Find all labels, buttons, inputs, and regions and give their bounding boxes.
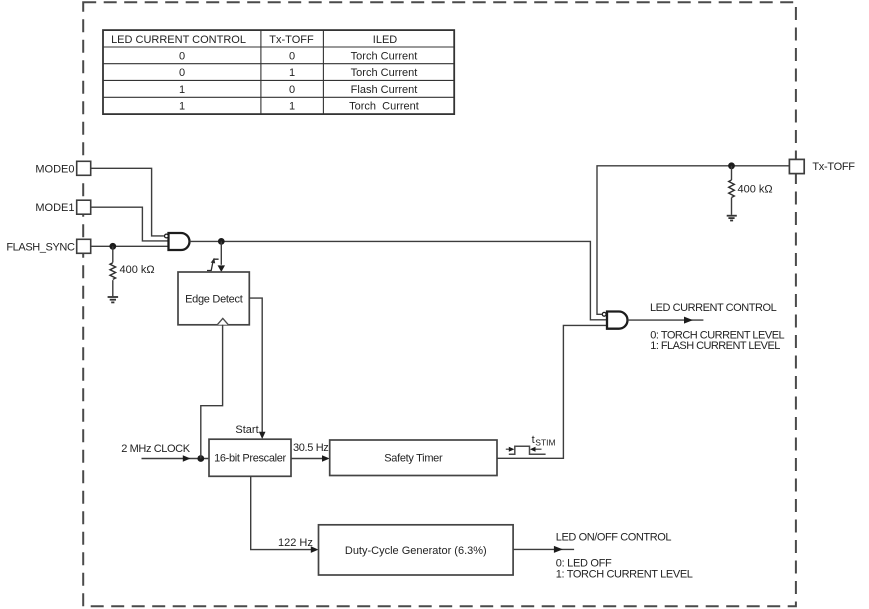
wire Edge Detect output to prescaler Start: [249, 298, 262, 433]
wire U1 output to right gate branch: [190, 241, 607, 319]
pin MODE1: [77, 200, 91, 214]
tSTIM pulse annotation: [509, 446, 546, 454]
rising edge symbol: [207, 259, 219, 270]
wire Tx-TOFF to U2 top input: [597, 166, 789, 314]
node Tx-TOFF junction: [728, 162, 735, 169]
svg-text:ILED: ILED: [373, 34, 398, 46]
svg-text:t: t: [532, 434, 535, 446]
svg-text:0: 0: [179, 67, 185, 79]
wire MODE0 to gate U1 top input: [91, 168, 164, 236]
resistor 400k right: [729, 180, 735, 197]
clock wedge on Edge Detect: [217, 318, 228, 324]
wire pulldown to resistor: [112, 246, 114, 296]
svg-text:Torch Current: Torch Current: [351, 67, 418, 79]
wire 2 MHz clock input: [142, 458, 210, 460]
resistor 400k left: [110, 263, 116, 280]
svg-text:Torch Current: Torch Current: [351, 50, 418, 62]
svg-text:2 MHz CLOCK: 2 MHz CLOCK: [121, 443, 190, 455]
wire prescaler to safety timer: [291, 458, 322, 460]
and-gate U2: [607, 312, 628, 329]
bubble on U1 MODE0 input: [165, 234, 169, 238]
svg-text:1: TORCH CURRENT LEVEL: 1: TORCH CURRENT LEVEL: [556, 569, 693, 581]
svg-text:Safety Timer: Safety Timer: [384, 453, 443, 465]
and-gate U1: [169, 233, 190, 250]
pin MODE0: [77, 161, 91, 175]
svg-text:122 Hz: 122 Hz: [278, 537, 313, 549]
wire pulldown to resistor right: [731, 166, 733, 215]
svg-text:0: 0: [289, 50, 295, 62]
wire duty-cycle output: [513, 548, 574, 550]
svg-text:Start: Start: [235, 424, 258, 436]
Duty-Cycle Generator block: [319, 525, 514, 575]
pin Tx-TOFF: [789, 159, 804, 173]
svg-text:FLASH_SYNC: FLASH_SYNC: [6, 241, 75, 253]
ground left: [108, 297, 119, 302]
svg-text:30.5 Hz: 30.5 Hz: [293, 442, 328, 454]
svg-text:LED ON/OFF CONTROL: LED ON/OFF CONTROL: [556, 532, 672, 544]
svg-text:Flash Current: Flash Current: [351, 84, 418, 96]
svg-text:LED CURRENT CONTROL: LED CURRENT CONTROL: [111, 34, 246, 46]
wire MODE1 to gate U1 middle input: [91, 207, 169, 241]
pin FLASH_SYNC: [77, 239, 91, 253]
svg-text:Edge Detect: Edge Detect: [185, 293, 243, 305]
svg-text:MODE0: MODE0: [35, 163, 74, 175]
table text: [111, 34, 419, 113]
svg-text:0: 0: [179, 50, 185, 62]
wire clock branch to Edge Detect clock: [201, 325, 223, 459]
svg-text:400 kΩ: 400 kΩ: [738, 184, 773, 196]
svg-text:STIM: STIM: [535, 438, 555, 448]
svg-text:Tx-TOFF: Tx-TOFF: [812, 161, 855, 173]
Edge Detect block: [178, 272, 249, 325]
truth table: [103, 30, 454, 114]
wire prescaler to duty-cycle generator: [251, 476, 311, 549]
svg-text:Duty-Cycle Generator (6.3%): Duty-Cycle Generator (6.3%): [345, 545, 487, 557]
wire U2 output LED current control: [627, 319, 703, 321]
svg-text:0: LED OFF: 0: LED OFF: [556, 557, 612, 569]
node FLASH_SYNC junction: [109, 243, 116, 250]
svg-text:1: 1: [289, 101, 295, 113]
svg-text:1: 1: [179, 84, 185, 96]
Safety Timer block: [330, 440, 497, 476]
svg-text:1: 1: [179, 101, 185, 113]
node clock junction: [197, 455, 204, 462]
bubble on U2 Tx-TOFF input: [602, 312, 606, 316]
ground right: [727, 216, 737, 221]
svg-text:1: 1: [289, 67, 295, 79]
wire FLASH_SYNC to gate U1 bottom input: [91, 245, 169, 247]
svg-text:Tx-TOFF: Tx-TOFF: [269, 34, 314, 46]
wire junction down to Edge Detect: [220, 241, 222, 264]
node U1 output junction: [218, 238, 225, 245]
svg-text:0: 0: [289, 84, 295, 96]
svg-text:LED CURRENT CONTROL: LED CURRENT CONTROL: [650, 302, 777, 314]
wire safety timer to right gate: [497, 325, 607, 458]
svg-text:Torch Current: Torch Current: [349, 101, 419, 113]
svg-text:MODE1: MODE1: [35, 202, 74, 214]
16-bit Prescaler block: [209, 439, 291, 476]
svg-text:1: FLASH CURRENT LEVEL: 1: FLASH CURRENT LEVEL: [650, 340, 780, 352]
svg-text:16-bit Prescaler: 16-bit Prescaler: [214, 453, 286, 465]
svg-text:400 kΩ: 400 kΩ: [120, 264, 155, 276]
